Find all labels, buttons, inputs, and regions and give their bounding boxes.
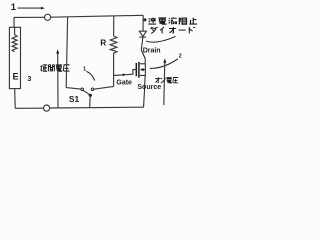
svg-text:R: R (100, 38, 106, 48)
svg-text:Gate: Gate (116, 79, 132, 86)
pivot lead to bottom rail (89, 95, 92, 107)
battery box E with internal resistance (9, 27, 20, 88)
internal resistor lead (14, 27, 16, 35)
svg-text:Drain: Drain (143, 48, 161, 55)
svg-text:Source: Source (137, 84, 161, 91)
text オン電圧 (155, 77, 178, 83)
leader from diode text to diode (146, 36, 176, 42)
MOSFET Q (power MOSFET) (136, 37, 145, 107)
asterisk mark (144, 18, 147, 22)
pivot dot (89, 94, 92, 97)
junction dot on gate wire (122, 74, 124, 76)
source stub (140, 74, 145, 76)
bottom rail right (50, 106, 144, 109)
leader from 1 to switch (86, 71, 94, 80)
body stub with arrow (143, 69, 146, 71)
svg-text:3: 3 (27, 76, 31, 83)
diode (reverse current blocking) (139, 31, 146, 37)
blade (83, 90, 90, 95)
svg-text:E: E (13, 71, 19, 81)
drain stub (140, 63, 145, 65)
channel bar (138, 62, 140, 78)
wire: gap branch from top rail down to switch (66, 17, 81, 89)
wire: top right segment (51, 15, 143, 17)
wire: drop to diode (142, 15, 144, 31)
gap voltage arrow (kyokukan den-atsu) (56, 49, 59, 108)
wire: gate wire to MOSFET (114, 70, 137, 76)
text 極間電圧 (41, 64, 70, 71)
svg-text:S1: S1 (69, 94, 80, 104)
text 逆電流阻止 (148, 17, 197, 24)
gate bar (135, 63, 137, 76)
svg-text:2: 2 (179, 54, 182, 60)
arrow for label 1 (18, 7, 45, 10)
resistor R zigzag (110, 36, 117, 53)
node circle (bottom) (44, 105, 50, 111)
leader from 2 to MOSFET (150, 59, 178, 69)
wire: switch to gate node (94, 76, 114, 90)
internal resistor zigzag (12, 35, 17, 52)
bottom rail left (15, 107, 43, 109)
left contact (81, 88, 84, 91)
text ダイオード (150, 27, 195, 34)
wire: top left segment (14, 14, 143, 31)
resistor R branch (110, 16, 117, 75)
right contact (91, 88, 94, 91)
wire: left drop to battery box (13, 17, 15, 27)
svg-text:1: 1 (11, 1, 16, 12)
wire: battery bottom to bottom rail (15, 89, 144, 112)
source lead down to bottom rail corner (144, 75, 146, 107)
switch S1 (81, 88, 94, 107)
on-voltage arrow (163, 58, 166, 105)
right vertical (body) (144, 64, 146, 76)
node circle (top) (45, 14, 51, 20)
svg-text:1: 1 (83, 66, 86, 72)
drain lead up to diode (141, 37, 145, 64)
